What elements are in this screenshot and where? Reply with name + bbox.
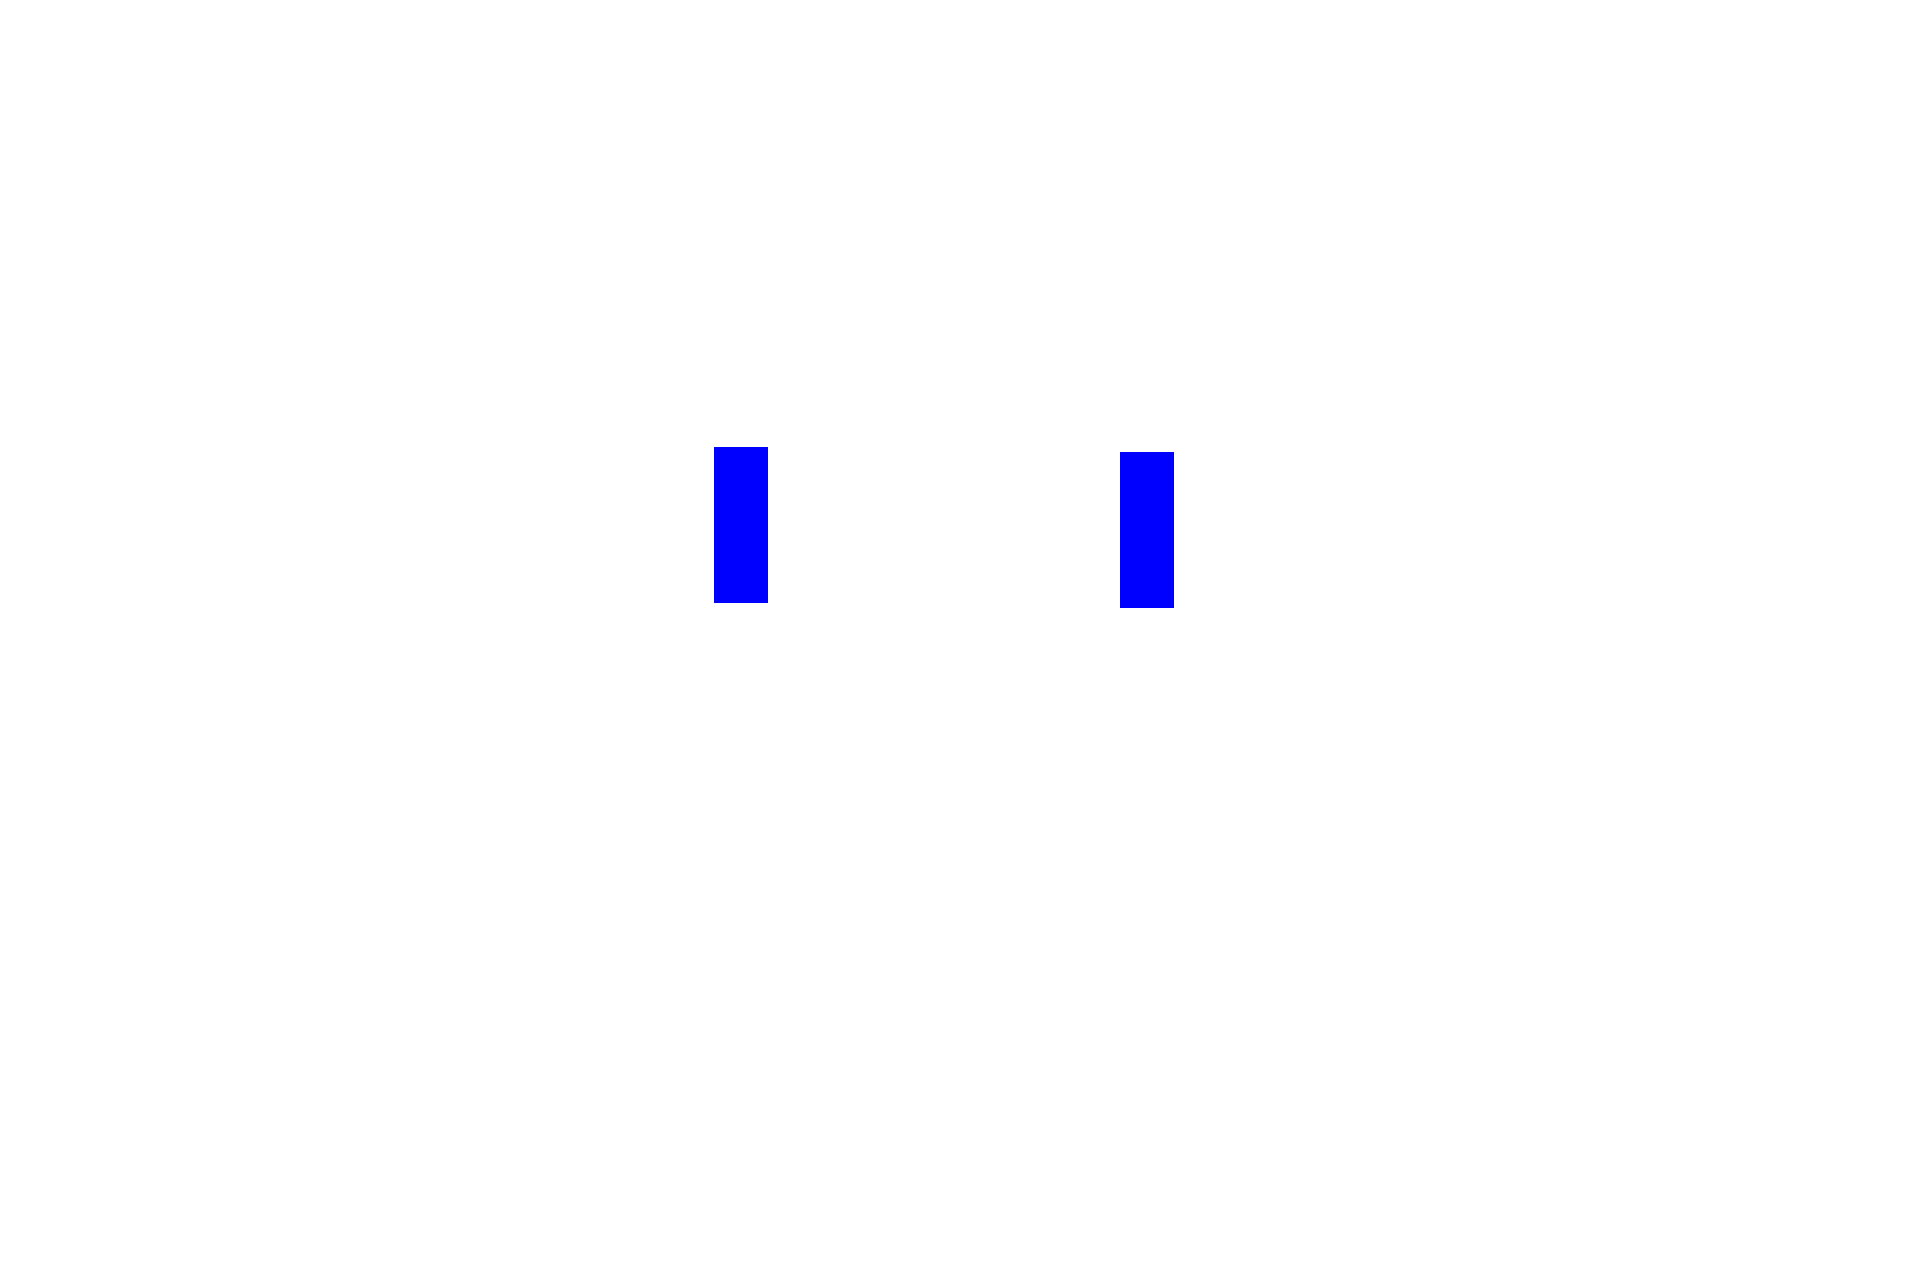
right paddle — [1120, 452, 1174, 608]
left paddle — [714, 447, 768, 603]
